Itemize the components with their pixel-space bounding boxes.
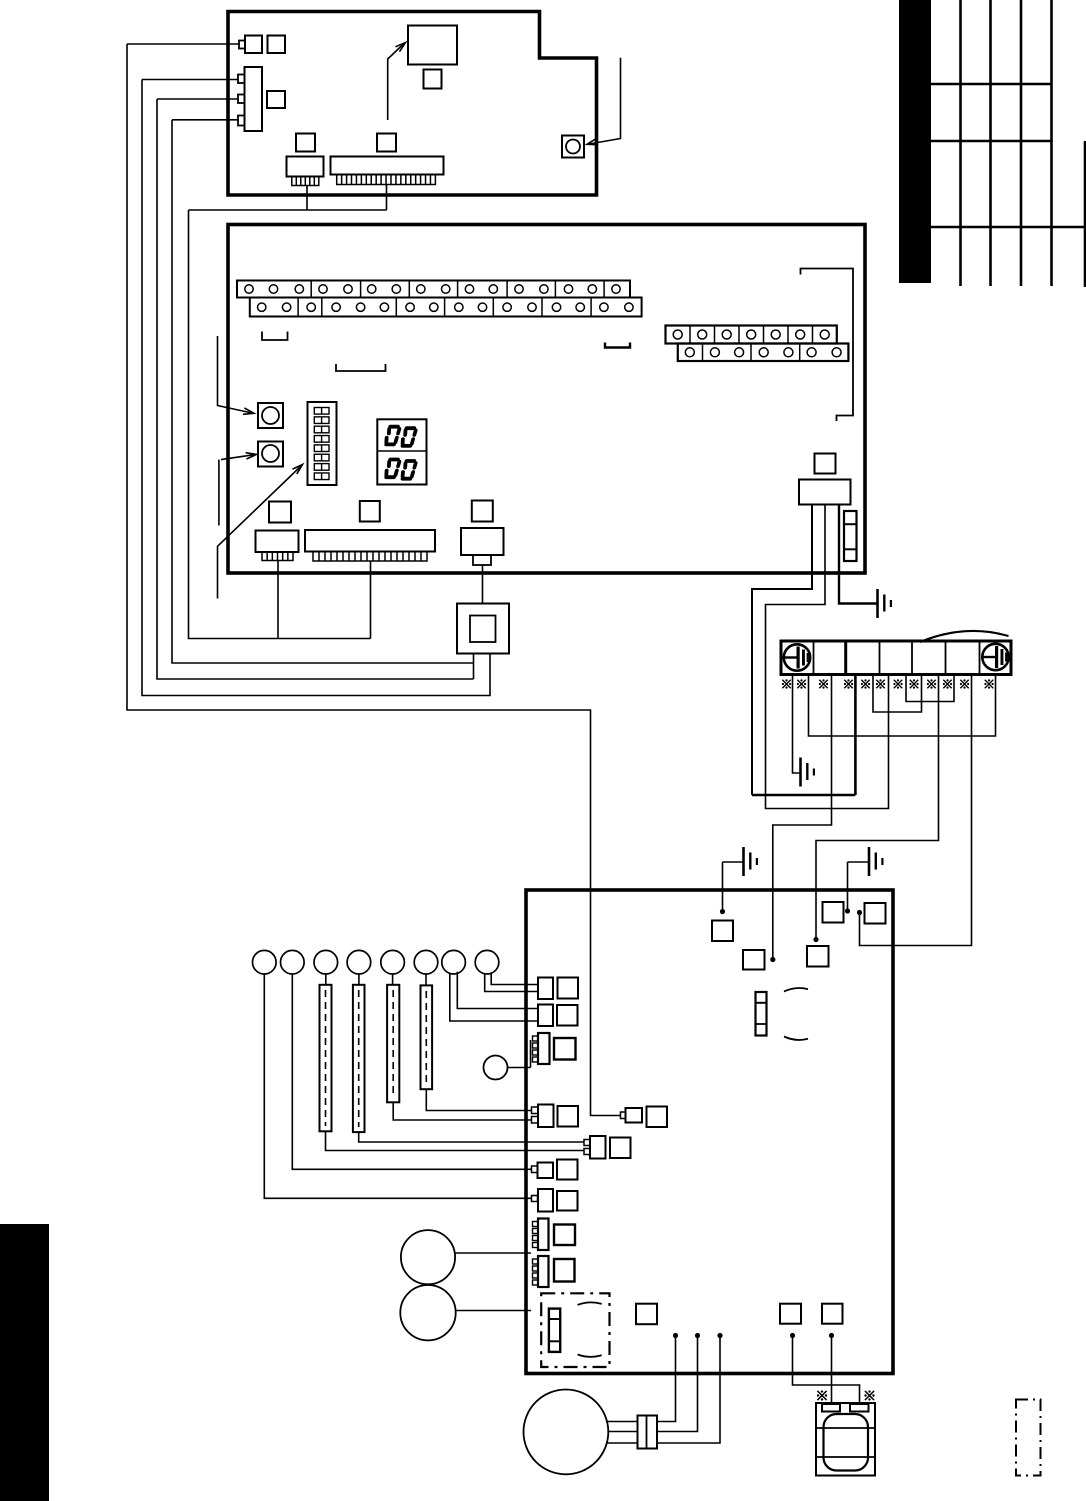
terminal strip TB-A row1 on PCB2 bbox=[237, 281, 630, 298]
reference mark at compressor U bbox=[817, 1390, 827, 1400]
relay RY2 coil arcs bbox=[578, 1302, 602, 1357]
pad C4 on PCB2 bbox=[472, 501, 493, 522]
chassis ground E3 bbox=[744, 847, 757, 876]
page margin: black section bar (bottom left) bbox=[0, 1224, 49, 1501]
wire sensor2 to CN16 bbox=[292, 974, 531, 1169]
pad P3 on PCB3 bbox=[807, 946, 829, 967]
solder bracket J1 on PCB2 bbox=[262, 332, 288, 341]
heavy wire to TB1 terminal L bbox=[752, 675, 855, 796]
chassis ground E4 bbox=[869, 847, 882, 876]
pad P1 on PCB3 bbox=[712, 921, 733, 942]
sensor plugs (8 round connectors) bbox=[252, 950, 498, 974]
wire TH2 to CN15 bbox=[359, 1132, 584, 1142]
thermistor TH3 (pipe sensor) bbox=[387, 974, 399, 1102]
connector CN17 on PCB3 bbox=[532, 1189, 578, 1212]
arrow from SW1 lead bbox=[218, 336, 255, 414]
pad C3 on PCB2 bbox=[360, 501, 380, 522]
DIP switch SW3 on PCB2 bbox=[308, 402, 337, 485]
jumper arc over TB1 bbox=[920, 631, 1009, 642]
arrow to DIP switch SW3 bbox=[218, 465, 303, 599]
chassis ground E1 bbox=[878, 589, 891, 618]
wire CN8.2 to terminal block bbox=[766, 505, 889, 809]
capacitor C1 pad on PCB1 bbox=[268, 36, 286, 54]
wire bus1 (CN1 to PCB3 CN14) bbox=[127, 44, 621, 1116]
push button SW2 on PCB2 bbox=[258, 442, 283, 467]
wire CN7 to noise filter bbox=[482, 565, 484, 604]
7-segment display DS1 on PCB2 bbox=[377, 419, 426, 484]
jumper TB1-2 to TB1-E2 bbox=[809, 675, 996, 737]
connector CN3 on PCB1 bbox=[287, 157, 324, 186]
pad U2 on PCB1 bbox=[267, 91, 285, 108]
wire sensor1 to CN17 bbox=[264, 974, 531, 1198]
wire CN8.3 (earth lead) bbox=[839, 505, 878, 604]
terminal strip TB-B row2 on PCB2 bbox=[678, 344, 849, 362]
terminal block TB1 bbox=[781, 641, 1011, 675]
compressor terminal V bbox=[850, 1404, 869, 1412]
arrow to PH1 bbox=[587, 58, 621, 145]
noise filter NF1 bbox=[457, 604, 509, 654]
connector CN15 on PCB3 bbox=[584, 1136, 631, 1159]
earth terminal TB1-E2 symbol bbox=[982, 644, 1008, 670]
compressor terminal U bbox=[822, 1404, 840, 1412]
page table: grid lines (top right) bbox=[931, 0, 1086, 287]
fan motor FM3 (outdoor fan) bbox=[524, 1390, 609, 1475]
IC U1 (microcontroller) on PCB1 bbox=[408, 26, 457, 65]
terminal strip TB-A row2 on PCB2 bbox=[250, 298, 642, 317]
connector CN10 on PCB3 bbox=[538, 978, 578, 1000]
pad P6 on PCB3 bbox=[636, 1304, 657, 1325]
pad P7 on PCB3 bbox=[780, 1304, 801, 1324]
connector CN1 on PCB1 bbox=[127, 36, 262, 54]
wire FM1 to CN18 bbox=[455, 1252, 531, 1254]
wire CN8.1 to terminal block bbox=[752, 505, 812, 796]
board trace bracket J4 on PCB2 bbox=[801, 269, 854, 422]
connector CN19 on PCB3 bbox=[533, 1256, 575, 1287]
wire TB1-1 to ground bbox=[793, 675, 801, 774]
jumper TB1-6 to TB1-8 bbox=[906, 675, 954, 702]
arrow from SW2 lead bbox=[219, 453, 257, 526]
thermistor TH4 (pipe sensor) bbox=[421, 974, 433, 1089]
wire TH1 to CN15 bbox=[326, 1131, 585, 1150]
PCB1 outline (display/control board) bbox=[228, 12, 597, 196]
chassis ground E2 bbox=[801, 758, 814, 787]
wire CN20-2 to PCB3 bbox=[657, 1333, 700, 1432]
wire pair sensor8 to CN10 bbox=[485, 972, 538, 991]
solder bracket J3 on PCB2 bbox=[336, 364, 386, 371]
thermistor TH2 (pipe sensor) bbox=[353, 974, 365, 1132]
pad C2 on PCB2 bbox=[269, 502, 291, 523]
wire bus3 (CN2.2 to noise filter) bbox=[157, 99, 474, 679]
connector CN18 on PCB3 bbox=[533, 1219, 576, 1251]
terminal strip TB-B row1 on PCB2 bbox=[666, 326, 837, 344]
wire CN20-1 to PCB3 bbox=[657, 1333, 678, 1422]
pad U4 on PCB1 bbox=[296, 134, 315, 152]
relay RY2 contacts bbox=[549, 1309, 560, 1352]
connector CN6 (ribbon) on PCB2 bbox=[305, 530, 435, 561]
page table: black index tab (top right) bbox=[899, 0, 931, 283]
earth terminal TB1-E1 symbol bbox=[784, 644, 810, 670]
pad P5 on PCB3 bbox=[865, 903, 886, 924]
connector CN5 on PCB2 bbox=[256, 531, 299, 561]
wire TH3 to CN13 bbox=[393, 1102, 531, 1120]
wire TB1-11 to PCB3 pad bbox=[857, 675, 972, 946]
PCB3 outline (power board) bbox=[526, 890, 893, 1374]
wire bus2 (CN2.1 to noise filter) bbox=[142, 80, 490, 696]
wire labels (reference marks) under TB1 bbox=[782, 679, 994, 688]
wire FM2 to CN19 bbox=[456, 1310, 532, 1312]
fan motor FM2 (lower) bbox=[400, 1285, 455, 1340]
PCB2 outline (main control board) bbox=[228, 225, 865, 574]
pad U3 on PCB1 bbox=[424, 70, 442, 89]
connector CN8 (power) on PCB2 bbox=[799, 480, 851, 505]
wire pad to ground E3 bbox=[720, 862, 744, 914]
fuse F1 on PCB2 bbox=[844, 511, 857, 561]
push button SW1 on PCB2 bbox=[258, 403, 283, 428]
fan motor sensor FS1 bbox=[484, 1040, 531, 1080]
capacitor outline (dash-dot, bottom right) bbox=[1016, 1400, 1041, 1476]
relay RY1 coil arcs bbox=[784, 988, 808, 1040]
wire TB1-3 to PCB3 S-terminal bbox=[770, 675, 831, 963]
wire PCB3 to compressor terminal U bbox=[790, 1333, 860, 1404]
connector CN13 on PCB3 bbox=[532, 1105, 579, 1128]
connector CN2 (3-pin) on PCB1 bbox=[238, 67, 262, 131]
connector CN20 (fan motor plug) bbox=[638, 1416, 658, 1449]
solder bracket J2 on PCB2 bbox=[605, 343, 630, 348]
wire net: PCB1 CN3/CN4 to PCB2 CN5/CN6 bbox=[189, 185, 387, 639]
reference mark at compressor V bbox=[864, 1390, 874, 1400]
LED PH1 (photo sensor) on PCB1 bbox=[562, 136, 584, 158]
wire pair sensor7 to CN11 bbox=[450, 972, 538, 1021]
relay module RY2 (dash-dot enclosure) bbox=[541, 1293, 609, 1367]
wire TB1-9 to PCB3 pad bbox=[813, 675, 938, 943]
connector CN11 on PCB3 bbox=[538, 1005, 578, 1027]
pad C5 on PCB2 bbox=[815, 454, 836, 474]
pad U5 on PCB1 bbox=[377, 134, 396, 152]
wire PCB3 to compressor terminal V bbox=[829, 1333, 834, 1404]
wire pad to ground E4 bbox=[845, 862, 869, 914]
connector CN16 on PCB3 bbox=[532, 1160, 578, 1180]
fan motor FM1 (upper) bbox=[401, 1230, 455, 1284]
jumper TB1-5 to TB1-7 bbox=[873, 675, 922, 713]
wire bus4 (CN2.3 to noise filter) bbox=[172, 120, 474, 679]
wire CN20-3 to PCB3 bbox=[657, 1333, 723, 1443]
pad P2 on PCB3 bbox=[743, 950, 765, 970]
connector CN7 on PCB2 bbox=[461, 528, 504, 565]
wires FM3 to CN20 bbox=[606, 1422, 638, 1444]
relay RY1 contacts bbox=[756, 992, 767, 1036]
arrow to U1 bbox=[388, 43, 406, 121]
compressor motor CM1 body bbox=[816, 1403, 875, 1476]
thermistor TH1 (pipe sensor) bbox=[320, 974, 332, 1131]
pad P4 on PCB3 bbox=[823, 902, 844, 923]
connector CN4 (ribbon) on PCB1 bbox=[331, 157, 444, 185]
connector CN12 on PCB3 bbox=[533, 1033, 576, 1064]
connector CN14 on PCB3 bbox=[621, 1107, 668, 1128]
wire TH4 to CN13 bbox=[426, 1089, 531, 1110]
pad P8 on PCB3 bbox=[822, 1304, 843, 1324]
